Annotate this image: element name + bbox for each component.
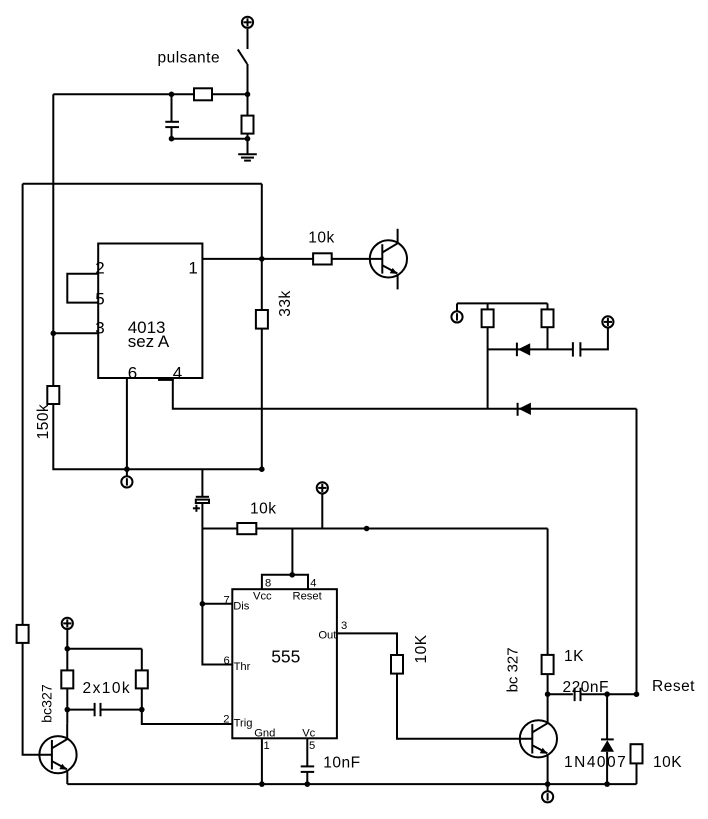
wire cap to supply	[580, 329, 608, 350]
wire to reset node	[607, 693, 636, 695]
wire pin1 node to 10k resistor	[262, 258, 313, 260]
svg-text:4: 4	[310, 578, 316, 590]
junction ground node	[245, 136, 251, 142]
wire 2x10k header	[67, 648, 142, 650]
wire node left to column A	[53, 93, 171, 95]
outer loop left vertical lower to bc327 base	[23, 643, 52, 755]
capacitor top	[165, 94, 179, 138]
junction switch/resistor node	[245, 92, 251, 98]
junction 33k rail node	[259, 466, 265, 472]
net flag 1 top right	[451, 303, 462, 322]
junction Vcc line dot	[364, 526, 370, 532]
wire 150k to bottom rail of 4013	[53, 404, 127, 469]
junction cap bottom node	[169, 136, 175, 142]
IC 4013 box	[98, 244, 202, 379]
svg-text:bc327: bc327	[39, 684, 55, 723]
resistor 33k	[256, 310, 268, 329]
svg-text:pulsante: pulsante	[158, 50, 221, 67]
ground	[238, 154, 257, 160]
junction reset node	[634, 691, 640, 697]
wire resistor to cap node	[172, 93, 195, 95]
wire 10K right to rail	[636, 763, 638, 784]
svg-text:8: 8	[265, 577, 271, 589]
wire Vcc line left part	[202, 528, 237, 530]
wire column A down to pin3 node	[52, 94, 54, 333]
wire collector node to 220nF	[548, 693, 573, 695]
transistor bc327 right	[520, 694, 557, 784]
resistor 150k	[47, 386, 59, 404]
supply plus top right	[602, 316, 613, 327]
rail under 4013	[127, 468, 262, 470]
capacitor 2x10k line	[95, 703, 101, 716]
wire 10K to bc327 base	[397, 674, 532, 739]
svg-text:150k: 150k	[35, 404, 52, 440]
wire cap right	[101, 709, 142, 711]
svg-text:Out: Out	[318, 629, 337, 641]
junction 1N4007 node	[604, 691, 610, 697]
wire switch to node	[247, 64, 249, 94]
transistor top NPN	[370, 229, 407, 290]
supply plus left	[62, 618, 73, 629]
resistor 2x10k a	[61, 649, 73, 710]
junction collector node	[545, 691, 551, 697]
wire resistor-a down to diode2 line	[487, 349, 489, 408]
wire 4013 pin2-pin5 loop	[67, 274, 98, 303]
wire pin2 trig	[142, 710, 233, 724]
wire 10k to transistor base	[332, 258, 383, 260]
capacitor 220nF	[575, 688, 581, 701]
svg-text:bc 327: bc 327	[504, 647, 521, 692]
resistor 10k mid	[237, 523, 256, 534]
net flag 1 bottom	[542, 784, 553, 802]
resistor 1K	[542, 655, 554, 674]
svg-text:10k: 10k	[250, 501, 277, 518]
svg-text:1N4007: 1N4007	[564, 754, 627, 771]
capacitor 10nF on pin5	[301, 738, 315, 784]
svg-text:Trig: Trig	[234, 717, 253, 729]
wire Out to 10K	[337, 633, 397, 655]
junction emitter rail	[545, 781, 551, 787]
wire left column cap to pin6	[202, 529, 232, 665]
wire supply left down	[66, 630, 68, 649]
outer loop right vertical	[261, 184, 263, 310]
svg-text:6: 6	[128, 364, 137, 383]
wire top right header	[457, 302, 548, 304]
resistor 10k top	[313, 253, 332, 264]
svg-text:10K: 10K	[653, 754, 682, 771]
junction pin7 node	[200, 601, 206, 607]
resistor left unlabeled	[17, 625, 29, 643]
junction cap top node	[169, 92, 175, 98]
wire 33k to rail	[261, 329, 263, 470]
wire pin8 drop	[291, 529, 293, 575]
supply plus top (pulsante)	[242, 17, 253, 28]
svg-text:5: 5	[95, 289, 104, 308]
diode D2 on pin4 line	[518, 403, 531, 416]
bottom rail	[67, 783, 636, 785]
electrolytic capacitor plus	[196, 469, 209, 528]
wire pin7	[202, 603, 232, 605]
junction pin6 rail node	[124, 466, 130, 472]
svg-text:Vc: Vc	[302, 728, 315, 740]
junction pin8 bracket	[289, 572, 295, 578]
wire pin3 node down to 150k	[52, 333, 54, 386]
wire pin8/pin4 bracket	[262, 575, 308, 589]
svg-text:3: 3	[341, 620, 347, 632]
wire 4013 pin1 to 33k node	[202, 258, 261, 260]
svg-text:4: 4	[173, 364, 182, 383]
outer loop top wire	[23, 183, 262, 185]
outer loop left vertical upper	[22, 184, 24, 625]
diode D1	[517, 343, 530, 357]
resistor top horizontal	[194, 88, 212, 100]
4013 pin4 stub segment	[158, 379, 174, 381]
resistor to ground vertical	[242, 94, 254, 153]
wire 4013 pin6 down to rail	[126, 378, 128, 469]
junction cap left node	[65, 707, 71, 713]
wire diode1 line	[488, 348, 573, 350]
svg-text:Thr: Thr	[234, 661, 251, 673]
svg-text:Reset: Reset	[652, 678, 695, 695]
svg-text:10K: 10K	[413, 634, 430, 663]
svg-text:5: 5	[309, 740, 315, 752]
junction 1N4007 rail	[604, 781, 610, 787]
svg-text:Dis: Dis	[233, 600, 250, 612]
svg-text:2x10k: 2x10k	[83, 680, 132, 697]
label plus of electrolytic	[193, 505, 200, 512]
wire supply mid to Vcc line	[321, 495, 323, 529]
wire supply to switch	[247, 29, 249, 49]
resistor 10K right	[631, 744, 643, 763]
svg-text:1: 1	[264, 740, 270, 752]
svg-text:555: 555	[271, 647, 300, 667]
resistor 10K out	[391, 655, 403, 674]
wire 4013 pin4 down and right	[173, 378, 637, 409]
junction Gnd rail	[259, 781, 265, 787]
junction 10nF rail	[305, 781, 311, 787]
svg-text:Reset: Reset	[293, 591, 323, 603]
svg-text:1K: 1K	[564, 648, 584, 665]
svg-text:3: 3	[95, 319, 104, 338]
switch pulsante lever	[238, 49, 247, 64]
diode 1N4007	[601, 694, 615, 784]
svg-text:10k: 10k	[308, 230, 335, 247]
resistor 2x10k b	[136, 649, 148, 710]
wire node to resistor	[212, 93, 248, 95]
transistor bc327 left	[39, 723, 76, 784]
junction 4013 pin1 node	[259, 256, 265, 262]
wire cap bottom to ground node	[172, 138, 248, 140]
svg-text:sez A: sez A	[128, 332, 170, 351]
junction cap right node	[139, 707, 145, 713]
svg-text:Vcc: Vcc	[253, 591, 272, 603]
net flag 1 under 4013	[121, 469, 132, 487]
junction supply left node	[65, 646, 71, 652]
wire Gnd pin1 down	[261, 738, 263, 784]
svg-text:10nF: 10nF	[323, 755, 360, 772]
wire Vcc line right part	[256, 528, 547, 530]
wire right column down from diode line	[636, 409, 638, 694]
wire Vcc line down to 1K	[547, 529, 549, 655]
wire left collector drop	[66, 710, 68, 724]
resistor right-b	[542, 303, 554, 349]
svg-text:33k: 33k	[277, 290, 294, 317]
svg-text:1: 1	[188, 258, 197, 277]
resistor right-a	[482, 303, 494, 349]
wire 1K to collector node	[547, 674, 549, 694]
wire pin3 node to 4013 pin 3	[53, 332, 98, 334]
wire 220nF to diode node	[581, 693, 608, 695]
capacitor top right	[573, 342, 581, 356]
IC 555 box	[232, 589, 337, 738]
wire cap left	[67, 709, 94, 711]
supply plus mid	[317, 482, 328, 493]
junction pin3 node	[51, 331, 57, 337]
svg-text:Gnd: Gnd	[254, 728, 275, 740]
